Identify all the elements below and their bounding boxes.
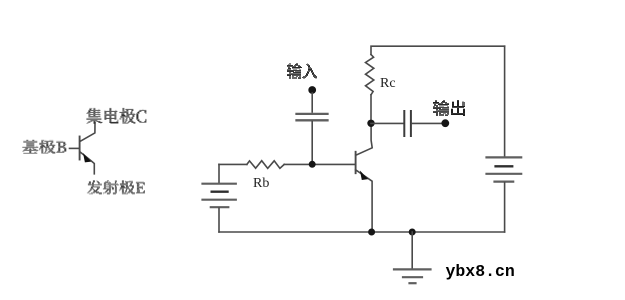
transistor Q1 emitter lead [356,170,373,232]
ground symbol line 2 [403,276,422,278]
node: output terminal dot [441,119,449,127]
label: 输入 (input) [287,63,317,79]
label: resistor value Rb [253,176,269,192]
wire: collector node to capacitor C2 [371,122,403,124]
watermark ybx8.cn [446,262,515,281]
wire: battery V1 bottom to bottom rail [218,208,220,232]
label: 基极B (base B) [22,140,66,154]
transistor Q emitter arrow [83,153,91,162]
transistor Q base lead wire [70,147,80,149]
wire: ground lead [411,232,413,269]
transistor Q collector lead [80,122,95,141]
wire: battery V2 bottom to bottom rail [504,183,506,232]
ground symbol line 3 [410,282,416,284]
battery V1 plate short bottom [211,206,229,208]
battery V1 plate long [203,199,236,201]
wire: input dot to capacitor C1 [311,93,313,112]
label: 集电极C (collector C) [86,108,146,124]
battery V1 plate long top [203,183,236,185]
label: resistor value Rc [380,76,396,92]
wire: battery V1 top lead [218,164,220,183]
capacitor C2 plate right [410,111,412,136]
transistor Q emitter lead [80,152,94,174]
capacitor C2 plate left [403,111,405,136]
resistor Rb (horizontal zigzag) [247,161,284,169]
battery V1 plate short [212,190,228,192]
wire: bottom rail [219,231,505,233]
capacitor C1 plate bottom [297,119,328,121]
node: emitter junction dot on bottom rail [368,229,375,236]
transistor symbol Q (left legend): base bar [79,137,81,160]
ground symbol line 1 [394,268,431,270]
label: 输出 (output) [433,100,465,116]
wire: base rail left segment [219,163,247,165]
label: 发射极E (emitter E) [87,180,145,194]
battery V2 plate long top [487,156,522,158]
transistor Q1 collector lead [356,123,372,155]
wire: right rail down to battery V2 top [504,46,506,156]
battery V2 plate long [487,173,522,175]
node: collector junction dot [367,120,374,127]
battery V2 plate short [496,165,513,167]
transistor Q1 bar [355,152,357,173]
node: junction dot base rail [309,161,316,168]
node: input terminal dot [308,86,316,94]
transistor Q1 emitter arrow [360,171,368,181]
wire: top rail from Rc top to right rail [371,46,505,54]
capacitor C1 plate top [297,113,328,115]
battery V2 plate short bottom [495,181,514,183]
wire: base rail from Rb to transistor base [284,163,355,165]
wire: capacitor C1 to base rail [311,122,313,165]
wire: Rc bottom to collector node [370,95,372,124]
resistor Rc (vertical zigzag) [366,55,374,95]
node: ground junction dot on bottom rail [409,229,416,236]
wire: capacitor C2 to output dot [412,122,445,124]
